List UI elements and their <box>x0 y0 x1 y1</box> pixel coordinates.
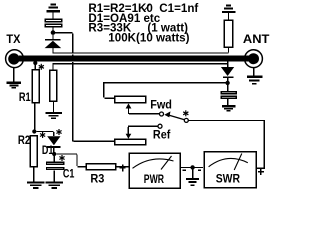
resistor R1 <box>32 63 39 132</box>
R1 value label <box>19 90 31 104</box>
asterisk (above D1) <box>56 129 61 135</box>
switch SW1 common pole <box>184 118 188 122</box>
ANT label <box>243 32 270 46</box>
D1 label <box>42 143 54 157</box>
ground (below C3) <box>222 105 236 112</box>
ground (below C1) <box>46 181 64 189</box>
potentiometer VR2 Ref <box>115 134 146 145</box>
node F: junction dot D3/C3 <box>225 81 229 85</box>
svg-text:C1: C1 <box>63 167 75 181</box>
capacitor C1 <box>47 156 64 181</box>
R2 value label <box>18 133 31 147</box>
switch SW1 lever and arrowhead <box>164 111 184 119</box>
minus label (left of SWR) <box>198 170 201 171</box>
diode D1 (cathode down) <box>47 132 60 152</box>
resistor R4 (sense, to ground, x=53) <box>50 65 57 112</box>
wire: node F left to Fwd pot top end <box>103 82 227 99</box>
R3 label <box>90 172 104 186</box>
diode D2 (top left, cathode up) <box>45 35 62 53</box>
wire: SWR plus up to switch common <box>189 120 265 169</box>
resistor R3 <box>86 164 116 170</box>
plus label (SWR meter) <box>258 168 264 174</box>
ground (top left, above C2 trimmer) <box>47 4 61 19</box>
meter M2 SWR <box>204 152 256 188</box>
wire: R3 to PWR meter <box>116 166 129 167</box>
switch SW1 contact Ref <box>158 124 162 128</box>
svg-text:ANT: ANT <box>243 32 270 46</box>
wire: Ref contact to VR2 wiper <box>128 126 158 134</box>
asterisk (near node C) <box>40 132 45 138</box>
resistor R5 (top right, to ground) <box>224 13 232 53</box>
C1 label <box>63 167 75 181</box>
node B: junction dot on main line for R1 <box>33 61 37 65</box>
minus label (right of PWR) <box>183 170 186 171</box>
ground (below R2) <box>27 181 45 189</box>
TX connector J1 <box>6 50 24 68</box>
ground (top right, above R5) <box>222 5 235 13</box>
Fwd label <box>150 98 172 112</box>
wire: PWR to SWR meter <box>181 167 203 168</box>
asterisk (right of node D) <box>59 155 64 161</box>
wire: sample line from D2 to top-right resistor <box>52 52 228 53</box>
svg-text:R1: R1 <box>19 90 31 104</box>
ground (below node E) <box>186 170 199 187</box>
slashed zero in 1K0 <box>144 5 149 11</box>
ground (below ANT connector) <box>247 68 262 85</box>
potentiometer VR1 Fwd <box>115 96 160 114</box>
info text block <box>88 2 198 45</box>
Ref label <box>153 127 171 141</box>
diode D3 (right, anode to line) <box>221 61 234 81</box>
plus label (PWR meter) <box>120 165 126 172</box>
asterisk (above switch common) <box>183 110 188 116</box>
svg-text:Fwd: Fwd <box>150 98 172 112</box>
ANT connector J2 <box>245 50 263 68</box>
node E: junction dot between meters <box>190 165 194 169</box>
node D: junction dot D1/C1/R3 <box>52 152 56 156</box>
meter M1 PWR <box>129 153 180 188</box>
wire: node D to R3 <box>56 153 86 167</box>
wire: main thick transmission line TX to ANT <box>19 56 250 62</box>
svg-text:D1: D1 <box>42 143 54 157</box>
svg-text:R2: R2 <box>18 133 31 147</box>
svg-text:PWR: PWR <box>144 172 164 186</box>
TX label <box>6 32 21 46</box>
svg-text:Ref: Ref <box>153 127 171 141</box>
ground (below resistor R4) <box>46 112 63 119</box>
node A: junction dot cap/diode top left <box>51 30 56 35</box>
capacitor C2 trimmer (top left) <box>45 19 61 30</box>
svg-text:100K(10 watts): 100K(10 watts) <box>108 32 189 45</box>
wire: from node A right and down across lines <box>55 32 114 142</box>
svg-text:R3: R3 <box>90 172 104 186</box>
node C: junction dot R1/R2/D1 <box>32 129 36 133</box>
wire: lower sense line below main line <box>52 63 227 64</box>
switch SW1 contact Fwd <box>160 112 164 116</box>
svg-text:SWR: SWR <box>216 172 240 186</box>
asterisk (near node B) <box>39 64 44 70</box>
svg-text:TX: TX <box>6 32 21 46</box>
resistor R2 <box>30 136 37 182</box>
ground (below TX connector) <box>7 67 22 88</box>
wire: node C to diode D1 <box>36 131 53 132</box>
capacitor C3 trimmer (right) <box>221 85 236 105</box>
